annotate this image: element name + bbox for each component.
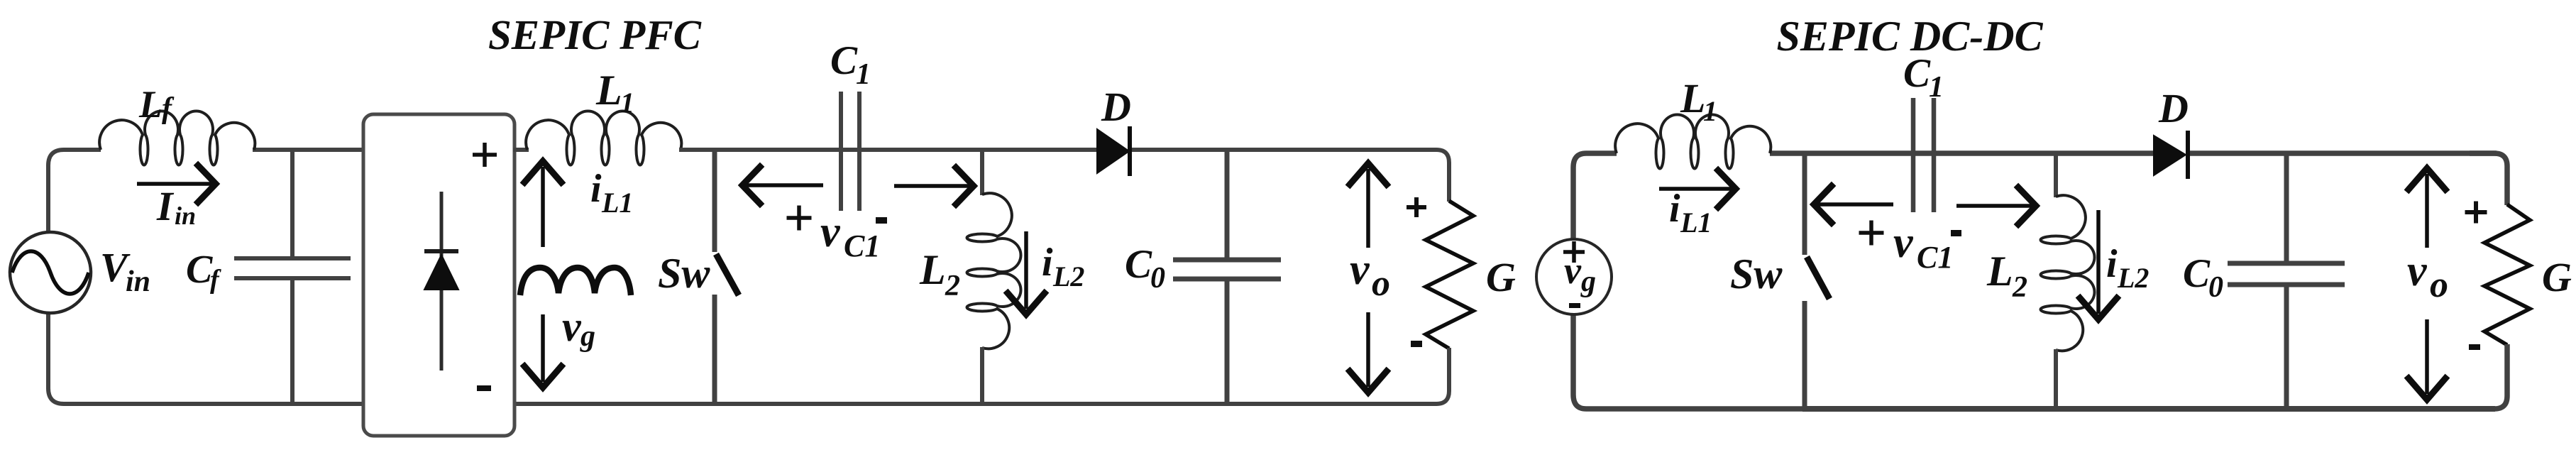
bridge rectifier box	[363, 114, 514, 436]
voltage arrow vg down (PFC)	[541, 314, 545, 382]
svg-text:C: C	[2183, 251, 2211, 296]
arrow vC1 right (PFC)	[894, 184, 969, 188]
svg-text:L: L	[595, 67, 622, 114]
svg-text:C1: C1	[844, 229, 880, 263]
wire C0 bottom stub (PFC)	[1225, 279, 1230, 404]
current arrow iL2 (DC-DC)	[2096, 210, 2101, 314]
capacitor C0 plates (DC-DC)	[2228, 261, 2345, 266]
wire L2 top stub (PFC)	[980, 150, 984, 195]
wire L2 top stub (DC-DC)	[2054, 153, 2058, 197]
svg-text:L1: L1	[1680, 207, 1712, 238]
svg-text:L2: L2	[1052, 260, 1084, 292]
wire top L1 to diode (DC-DC)	[1770, 150, 2155, 156]
bridge diode bar	[424, 249, 458, 253]
wire C0 bottom stub (DC-DC)	[2284, 285, 2289, 409]
svg-text:G: G	[2542, 254, 2572, 300]
wire diode to right corner	[1128, 148, 1436, 152]
svg-text:C: C	[830, 38, 858, 83]
svg-text:f: f	[162, 92, 175, 125]
svg-text:Sw: Sw	[1730, 251, 1783, 297]
label - (vC1 PFC)	[876, 217, 887, 224]
current arrow iL1 (DC-DC)	[1659, 187, 1732, 191]
svg-text:I: I	[156, 183, 175, 229]
svg-text:C: C	[186, 248, 213, 292]
current arrow Iin	[137, 182, 211, 186]
label + (vC1 PFC)	[787, 216, 812, 220]
wire Cf top stub	[290, 150, 295, 258]
arrow vC1 left (DC-DC)	[1818, 202, 1893, 207]
svg-text:i: i	[2106, 242, 2118, 286]
wire C0 top stub (PFC)	[1225, 150, 1230, 260]
wire top diode to right corner (DC-DC)	[2189, 150, 2497, 156]
capacitor C1 plates (DC-DC)	[1911, 98, 1916, 212]
capacitor C0 plates (PFC)	[1173, 258, 1281, 263]
svg-text:1: 1	[1703, 95, 1717, 127]
svg-text:2: 2	[2012, 271, 2027, 304]
wire C0 top stub (DC-DC)	[2284, 153, 2289, 263]
bridge diode line	[440, 192, 444, 371]
switch Sw wire lower (DC-DC)	[1802, 301, 1807, 409]
wire L2 bottom stub (DC-DC)	[2054, 349, 2058, 409]
dc source vg circle	[1536, 239, 1612, 314]
svg-text:o: o	[2430, 265, 2448, 305]
wire right edge bottom corner (PFC)	[1416, 348, 1449, 404]
svg-text:v: v	[1893, 219, 1914, 267]
label + (vC1 DC-DC)	[1859, 231, 1884, 235]
label - (vo DC-DC)	[2469, 344, 2480, 350]
svg-text:L2: L2	[2117, 262, 2149, 294]
label - (vC1 DC-DC)	[1951, 230, 1961, 236]
label - (rectifier)	[477, 385, 491, 391]
wire left loop (DC-DC)	[1573, 153, 1805, 409]
resistor G zigzag (PFC)	[1426, 201, 1473, 349]
wire left loop (PFC input)	[48, 150, 363, 404]
inductor Lf	[99, 111, 255, 165]
label + (vo PFC)	[1407, 205, 1426, 209]
voltage arrow vo up (PFC)	[1366, 169, 1370, 248]
svg-text:i: i	[590, 167, 602, 211]
rectified waveform symbol vg	[520, 268, 631, 295]
switch Sw wire lower (PFC)	[712, 295, 717, 404]
svg-text:v: v	[2407, 247, 2428, 295]
svg-text:g: g	[580, 320, 595, 353]
wire right edge top corner (PFC)	[1409, 150, 1449, 202]
svg-text:Sw: Sw	[658, 250, 710, 297]
diode D bar (DC-DC)	[2186, 131, 2190, 179]
svg-text:v: v	[1350, 246, 1370, 294]
resistor G zigzag (DC-DC)	[2484, 204, 2530, 345]
svg-text:v: v	[562, 303, 582, 350]
switch Sw blade (DC-DC)	[1807, 257, 1829, 299]
svg-text:2: 2	[945, 270, 960, 302]
svg-text:in: in	[126, 265, 150, 298]
switch Sw wire upper (PFC)	[712, 150, 717, 252]
svg-text:C1: C1	[1917, 240, 1953, 275]
svg-text:C: C	[1903, 51, 1931, 96]
wire right edge bottom corner (DC-DC)	[2477, 344, 2507, 409]
label + (vo DC-DC)	[2465, 210, 2487, 214]
svg-text:L: L	[1986, 248, 2013, 295]
wire top Lf to rectifier	[253, 148, 364, 152]
voltage arrow vo down (DC-DC)	[2425, 319, 2429, 394]
ac source Vin circle	[10, 232, 91, 313]
bridge diode triangle	[424, 255, 458, 290]
svg-text:v: v	[1564, 249, 1582, 292]
wire L1 to diode	[679, 148, 1099, 152]
label + (vg source)	[1563, 250, 1585, 254]
svg-text:1: 1	[1929, 71, 1944, 104]
capacitor Cf plates	[234, 256, 351, 260]
svg-text:f: f	[210, 265, 221, 295]
svg-text:L: L	[138, 83, 163, 126]
inductor L1 (DC-DC)	[1615, 114, 1771, 168]
svg-text:C: C	[1125, 242, 1152, 287]
inductor L2 (DC-DC)	[2041, 195, 2095, 351]
wire bottom main (PFC)	[355, 402, 1435, 406]
svg-text:SEPIC PFC: SEPIC PFC	[488, 11, 702, 58]
ac source sine wave	[12, 251, 89, 294]
svg-text:G: G	[1486, 254, 1516, 300]
wire Cf bottom stub	[290, 278, 295, 404]
diode D triangle (PFC)	[1097, 129, 1129, 173]
current arrow iL2 (PFC)	[1024, 231, 1028, 309]
current arrow iL1 up (PFC)	[541, 167, 545, 247]
voltage arrow vo down (PFC)	[1366, 312, 1370, 387]
inductor L2 (PFC)	[967, 193, 1021, 349]
label - (vo PFC)	[1411, 341, 1422, 347]
switch Sw wire upper (DC-DC)	[1802, 153, 1807, 255]
arrow vC1 right (DC-DC)	[1956, 204, 2032, 208]
voltage arrow vo up (DC-DC)	[2425, 174, 2429, 248]
label + (rectifier)	[473, 153, 497, 157]
wire right edge top corner (DC-DC)	[2470, 153, 2507, 205]
svg-text:1: 1	[620, 87, 634, 119]
svg-text:o: o	[1372, 263, 1390, 304]
svg-text:v: v	[820, 208, 841, 256]
svg-text:D: D	[2158, 85, 2189, 131]
svg-text:L: L	[1680, 75, 1705, 121]
arrow vC1 left (PFC)	[747, 183, 823, 187]
wire bottom main (DC-DC)	[1802, 406, 2495, 412]
svg-text:i: i	[1669, 187, 1680, 231]
wire rectifier to L1 stub	[513, 148, 529, 152]
label - (vg source)	[1569, 303, 1580, 308]
svg-text:D: D	[1101, 84, 1131, 130]
svg-text:0: 0	[1150, 262, 1165, 295]
inductor L1 (PFC)	[526, 111, 681, 165]
svg-text:L1: L1	[601, 187, 633, 219]
capacitor C1 plates (PFC)	[839, 92, 843, 211]
svg-text:g: g	[1580, 265, 1596, 298]
svg-text:in: in	[175, 202, 196, 230]
switch Sw blade (PFC)	[716, 254, 739, 295]
diode D triangle (DC-DC)	[2154, 136, 2186, 175]
wire L2 bottom stub (PFC)	[980, 347, 984, 404]
svg-text:1: 1	[856, 58, 871, 91]
diode D bar (PFC)	[1128, 126, 1132, 176]
svg-text:i: i	[1042, 241, 1053, 285]
svg-text:0: 0	[2208, 271, 2223, 304]
svg-text:L: L	[919, 246, 946, 293]
